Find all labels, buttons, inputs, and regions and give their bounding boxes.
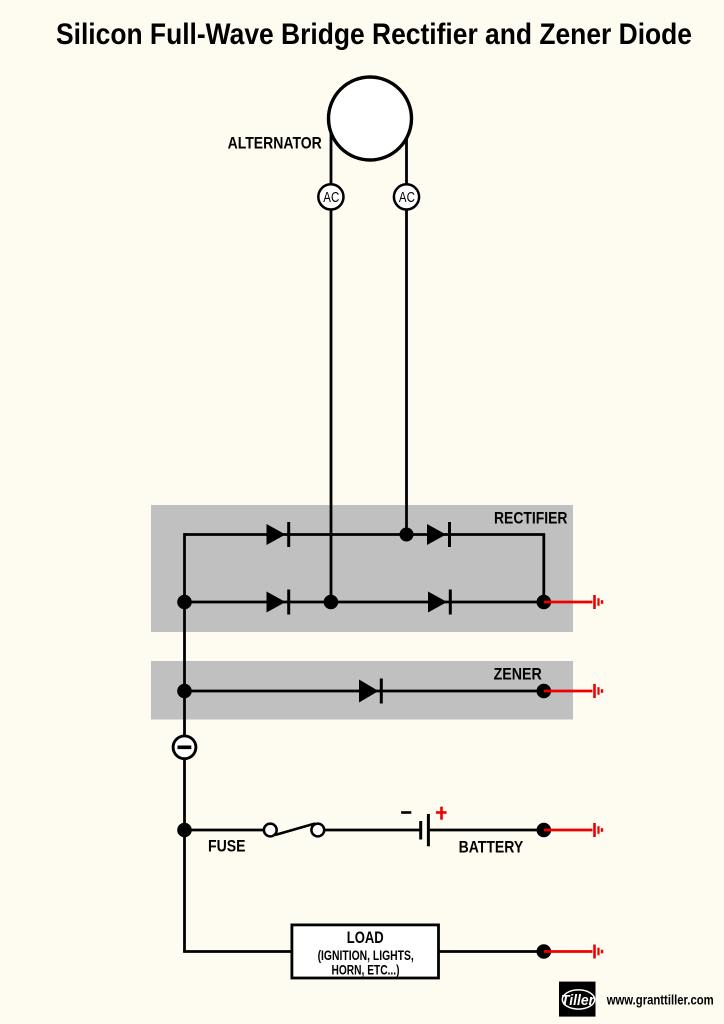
svg-text:AC: AC bbox=[399, 189, 415, 206]
diode D5 zener bbox=[359, 679, 381, 704]
wire left bus bbox=[183, 533, 186, 951]
ground rectifier bbox=[595, 595, 603, 609]
wire rectifier top row bbox=[185, 535, 544, 603]
battery plus sign bbox=[436, 807, 447, 820]
wire load ground lead bbox=[544, 950, 593, 953]
wire load to ground node bbox=[439, 950, 544, 953]
node bottom row right bbox=[537, 595, 552, 610]
svg-text:FUSE: FUSE bbox=[208, 837, 246, 856]
fuse terminal right bbox=[311, 824, 324, 837]
wire load row left segment bbox=[185, 950, 292, 951]
alternator bbox=[329, 77, 412, 160]
AC terminal right bbox=[394, 184, 419, 209]
svg-text:AC: AC bbox=[323, 189, 339, 206]
load box bbox=[292, 925, 439, 978]
ground load bbox=[595, 945, 603, 959]
battery plate negative bbox=[419, 821, 422, 840]
node bottom row left bbox=[177, 595, 192, 610]
node bottom row middle bbox=[324, 595, 339, 610]
wire zener ground lead bbox=[544, 690, 593, 693]
logo tiller bbox=[559, 982, 596, 1017]
diode D3 bottom-left bbox=[267, 590, 289, 615]
diode D2 top-right bbox=[427, 522, 450, 547]
svg-text:LOAD: LOAD bbox=[347, 928, 384, 947]
fuse terminal left bbox=[264, 824, 277, 837]
wire rectifier ground lead bbox=[544, 601, 593, 604]
svg-text:Silicon Full-Wave Bridge Recti: Silicon Full-Wave Bridge Rectifier and Z… bbox=[56, 18, 692, 51]
wire alternator right phase bbox=[405, 118, 408, 535]
node fuse row left bbox=[177, 823, 192, 838]
wire fuse to battery bbox=[324, 829, 420, 832]
svg-text:Tiller: Tiller bbox=[561, 993, 595, 1009]
battery negative terminal circle bbox=[173, 736, 196, 759]
rectifier shaded box bbox=[151, 505, 573, 632]
battery plate positive bbox=[427, 814, 430, 846]
fuse switch blade bbox=[275, 824, 315, 836]
node load right bbox=[537, 944, 552, 959]
wire fuse row left segment bbox=[185, 829, 265, 832]
wire rectifier bottom row bbox=[185, 601, 544, 604]
node zener right bbox=[537, 684, 552, 699]
svg-text:(IGNITION, LIGHTS,: (IGNITION, LIGHTS, bbox=[318, 948, 414, 963]
svg-text:ALTERNATOR: ALTERNATOR bbox=[228, 134, 322, 153]
svg-text:HORN, ETC...): HORN, ETC...) bbox=[332, 962, 400, 977]
wire zener row bbox=[185, 690, 544, 693]
node top row junction bbox=[400, 528, 414, 542]
diode D4 bottom-right bbox=[428, 590, 450, 615]
diode D1 top-left bbox=[267, 522, 289, 547]
svg-text:RECTIFIER: RECTIFIER bbox=[494, 509, 568, 528]
ground battery bbox=[595, 823, 603, 837]
node battery right bbox=[537, 823, 552, 838]
AC terminal left bbox=[318, 184, 343, 209]
ground zener bbox=[595, 684, 603, 698]
svg-text:www.granttiller.com: www.granttiller.com bbox=[606, 992, 714, 1008]
wire battery ground lead bbox=[544, 829, 593, 832]
wire alternator left phase bbox=[330, 118, 333, 602]
wire battery to ground node bbox=[428, 829, 543, 832]
svg-text:ZENER: ZENER bbox=[494, 665, 542, 684]
svg-text:BATTERY: BATTERY bbox=[459, 838, 524, 857]
zener shaded box bbox=[151, 661, 573, 720]
node zener left bbox=[177, 684, 192, 699]
battery minus sign bbox=[401, 811, 411, 814]
